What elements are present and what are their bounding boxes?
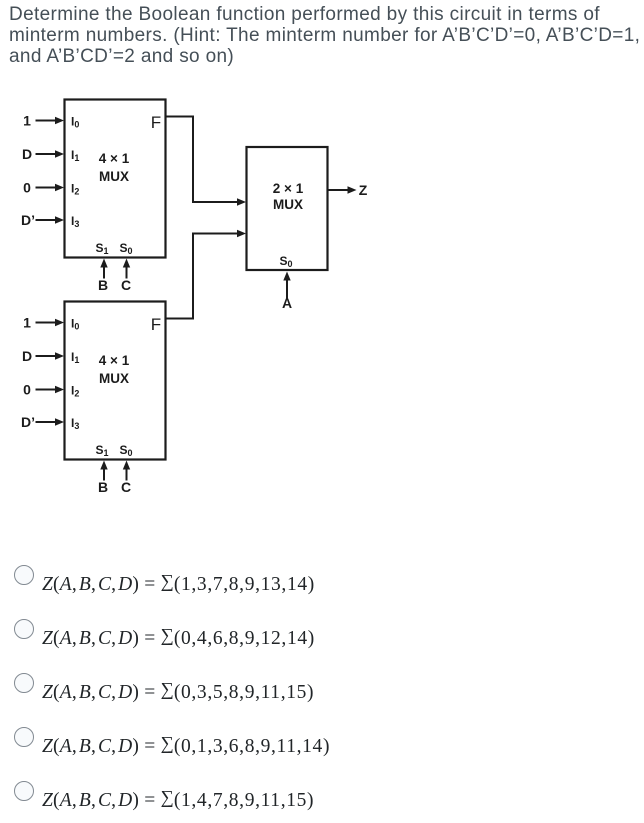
svg-text:I3: I3 [71, 416, 79, 431]
wire select B MUX2 [103, 468, 105, 481]
arrowhead input D' MUX1 [55, 216, 64, 223]
wire input D' MUX1 [36, 219, 56, 221]
svg-text:B: B [98, 277, 108, 293]
svg-text:D: D [22, 348, 32, 364]
arrowhead select B MUX1 [100, 259, 107, 268]
wire input D' MUX2 [36, 421, 56, 423]
svg-text:I2: I2 [71, 182, 79, 197]
svg-text:2 × 1: 2 × 1 [273, 181, 304, 196]
svg-text:F: F [151, 113, 161, 132]
svg-text:4 × 1: 4 × 1 [99, 353, 130, 368]
svg-text:4 × 1: 4 × 1 [99, 151, 130, 166]
arrowhead select C MUX1 [123, 259, 130, 268]
svg-text:I3: I3 [71, 214, 79, 229]
arrowhead input 1 MUX2 [55, 319, 64, 326]
svg-text:S0: S0 [119, 241, 132, 256]
wire input 1 MUX2 [36, 322, 56, 324]
svg-text:MUX: MUX [273, 197, 303, 212]
wire select C MUX2 [126, 468, 128, 481]
arrowhead select A MUX3 [283, 272, 290, 281]
svg-text:D’: D’ [21, 212, 35, 228]
svg-text:1: 1 [23, 113, 31, 129]
arrowhead input D MUX2 [55, 352, 64, 359]
svg-text:C: C [121, 277, 131, 293]
wire input 0 MUX2 [36, 389, 56, 391]
wire input 1 MUX1 [36, 120, 56, 122]
svg-text:I0: I0 [71, 317, 79, 332]
svg-text:B: B [98, 479, 108, 495]
wire input 0 MUX1 [36, 187, 56, 189]
svg-text:MUX: MUX [99, 371, 129, 386]
svg-text:S1: S1 [95, 443, 108, 458]
svg-text:D: D [22, 146, 32, 162]
op box MUX1 [65, 100, 166, 258]
svg-text:0: 0 [23, 382, 31, 398]
svg-text:S0: S0 [119, 443, 132, 458]
op box MUX3 2x1 [247, 147, 328, 270]
svg-text:I1: I1 [71, 350, 79, 365]
wire MUX1 F to MUX3 in0 [166, 117, 238, 203]
option row 4 [0, 727, 644, 767]
option row 1 [0, 565, 644, 605]
arrowhead input 0 MUX1 [55, 184, 64, 191]
arrowhead input 0 MUX2 [55, 386, 64, 393]
svg-text:MUX: MUX [99, 169, 129, 184]
wire output Z [328, 189, 349, 191]
svg-text:F: F [151, 315, 161, 334]
arrowhead select B MUX2 [100, 461, 107, 470]
arrowhead input 1 MUX1 [55, 117, 64, 124]
svg-text:1: 1 [23, 315, 31, 331]
svg-text:I1: I1 [71, 148, 79, 163]
svg-text:D’: D’ [21, 414, 35, 430]
arrowhead in1 MUX3 [237, 230, 246, 237]
arrowhead input D' MUX2 [55, 418, 64, 425]
option row 3 [0, 673, 644, 713]
svg-text:I0: I0 [71, 115, 79, 130]
wire select C MUX1 [126, 266, 128, 279]
arrowhead in0 MUX3 [237, 198, 246, 205]
wire select A MUX3 [286, 279, 288, 299]
svg-text:0: 0 [23, 180, 31, 196]
svg-text:Z: Z [359, 182, 368, 198]
arrowhead output Z [348, 186, 357, 193]
wire input D MUX2 [36, 355, 56, 357]
svg-text:S1: S1 [95, 241, 108, 256]
option row 5 [0, 781, 644, 821]
arrowhead select C MUX2 [123, 461, 130, 470]
wire input D MUX1 [36, 153, 56, 155]
wire select B MUX1 [103, 266, 105, 279]
svg-text:C: C [121, 479, 131, 495]
svg-text:A: A [282, 295, 292, 311]
svg-text:I2: I2 [71, 384, 79, 399]
option row 2 [0, 619, 644, 659]
wire MUX2 F to MUX3 in1 [166, 234, 238, 319]
op box MUX2 [65, 302, 166, 460]
arrowhead input D MUX1 [55, 150, 64, 157]
svg-text:S0: S0 [279, 254, 292, 269]
